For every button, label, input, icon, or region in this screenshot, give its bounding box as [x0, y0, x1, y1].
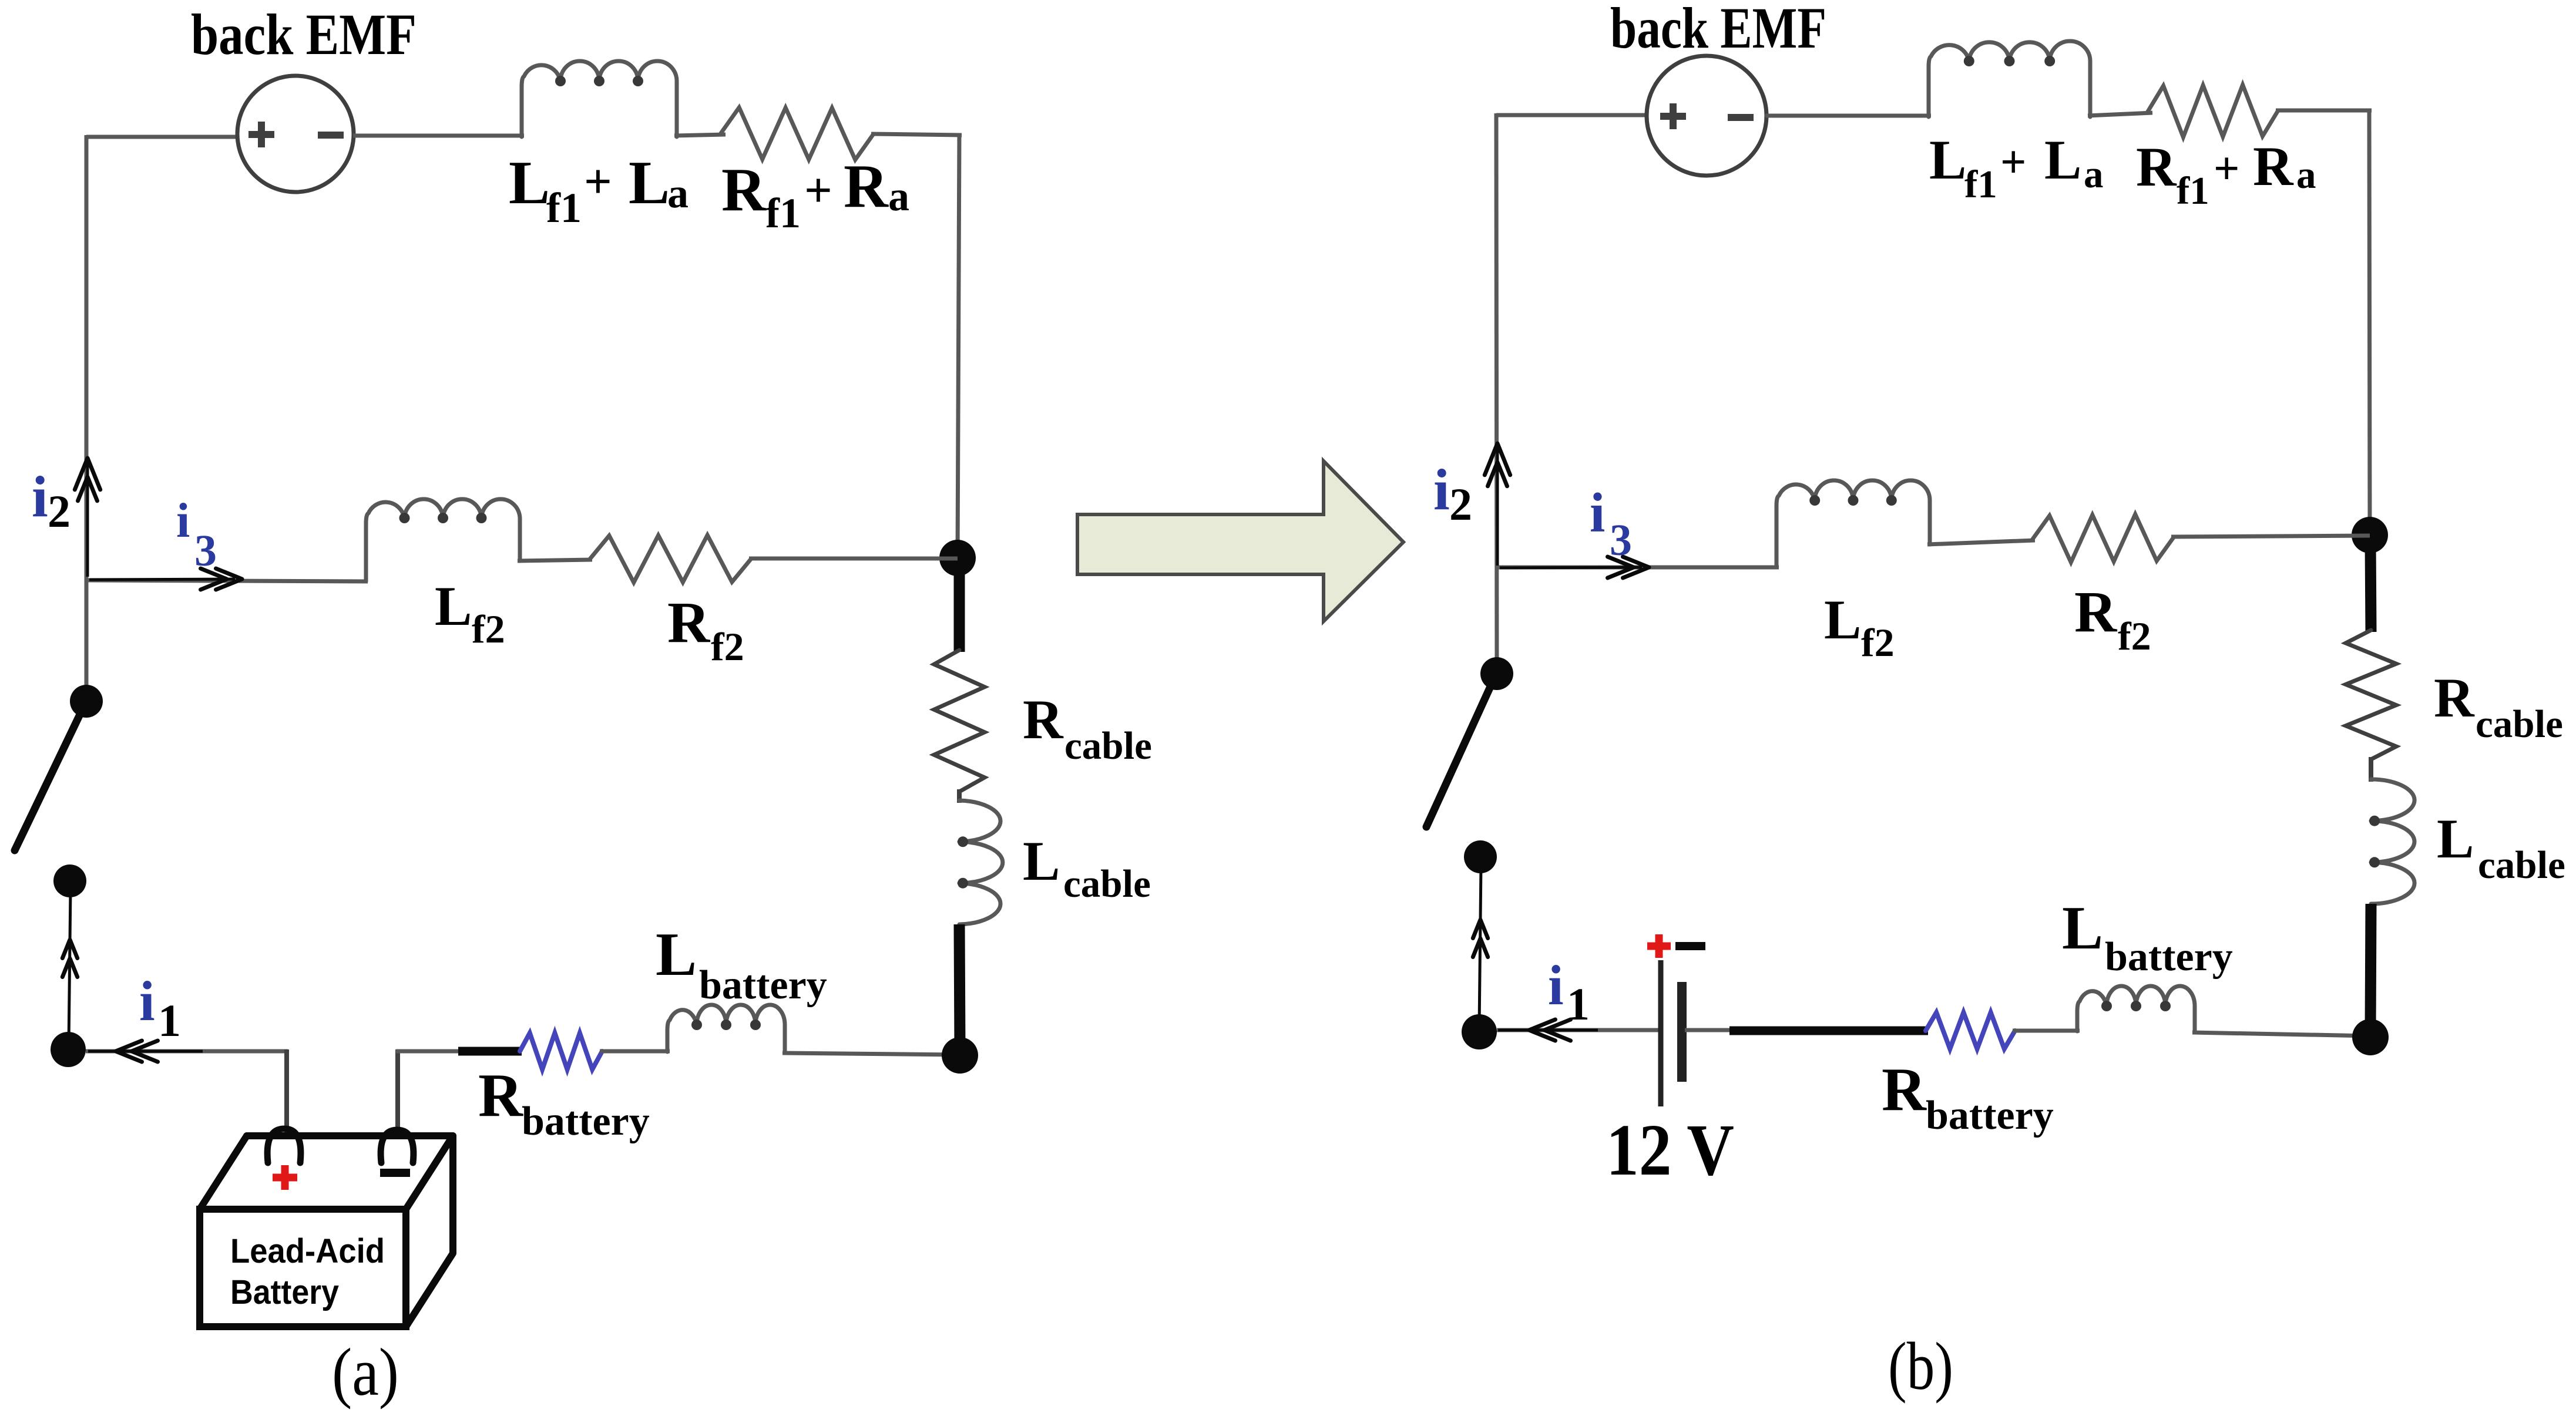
svg-text:12 V: 12 V [1606, 1110, 1734, 1191]
wire b: left vertical [1496, 113, 1497, 675]
svg-text:2: 2 [48, 486, 70, 537]
battery terminal clamp + (a) [267, 1129, 301, 1163]
label i3 (b) [1590, 482, 1632, 565]
svg-text:R: R [478, 1061, 523, 1129]
svg-text:a: a [888, 173, 909, 220]
inductor L_f2 (a) [366, 499, 520, 581]
inductor L_f1+L_a (a) [522, 61, 677, 137]
label R_cable (b) [2434, 667, 2563, 746]
label Lead-Acid Battery (a) [230, 1232, 385, 1311]
wire b: R_battery to L_battery [2013, 1029, 2080, 1033]
inductor L_battery (a) [667, 1005, 785, 1052]
label i1 (a) [139, 970, 181, 1046]
label R_f1+R_a (a) [721, 152, 909, 237]
battery box top face (a) [200, 1136, 453, 1209]
svg-text:L: L [2044, 129, 2081, 191]
label R_f1+R_a (b) [2136, 135, 2316, 213]
svg-text:i: i [176, 493, 190, 548]
label R_f2 (a) [667, 590, 744, 669]
wire b: L_f1 to R_f1 [2088, 113, 2152, 116]
svg-text:f2: f2 [711, 624, 744, 669]
label L_cable (b) [2437, 808, 2565, 887]
svg-text:cable: cable [1064, 724, 1152, 768]
svg-text:3: 3 [1610, 516, 1632, 565]
label back EMF (a) [191, 2, 417, 67]
wire a: negative lead to R_battery [396, 1049, 522, 1054]
svg-text:f2: f2 [472, 607, 505, 651]
svg-text:+: + [584, 154, 612, 209]
label i3 (a) [176, 493, 217, 576]
wire b: i3 branch left segment [1497, 566, 1779, 570]
label L_cable (a) [1023, 830, 1151, 906]
label L_f1+L_a (a) [509, 148, 688, 231]
wire a: L_f2 to R_f2 [518, 560, 592, 561]
switch S2 blade (b) [1426, 679, 1494, 827]
svg-text:R: R [2136, 136, 2177, 198]
svg-text:L: L [1824, 588, 1861, 651]
label L_battery (b) [2062, 893, 2233, 980]
wire a: L_battery to node A3 [782, 1053, 960, 1055]
svg-text:1: 1 [158, 995, 181, 1046]
current arrow i3 (a) [89, 568, 242, 590]
svg-text:L: L [629, 148, 670, 217]
inductor L_cable (a) [958, 800, 1003, 924]
wire a: battery negative lead [395, 1049, 400, 1141]
svg-text:3: 3 [194, 526, 217, 576]
svg-text:back EMF: back EMF [191, 2, 417, 67]
node A1: mid-right junction (a) [939, 540, 976, 576]
svg-text:battery: battery [2105, 934, 2233, 980]
voltage source back-EMF E1 (a) [237, 76, 354, 192]
svg-text:R: R [2253, 135, 2294, 197]
wire a: R_cable to L_cable joint [957, 789, 962, 803]
battery + mark (a) [273, 1165, 297, 1190]
svg-text:R: R [1023, 688, 1064, 751]
wire a: right vertical upper [958, 133, 959, 558]
resistor R_f2 (b) [2033, 514, 2174, 563]
caption (a) [332, 1335, 399, 1409]
wire b: top horizontal left of source [1496, 113, 1648, 117]
svg-text:L: L [2062, 893, 2103, 962]
svg-text:Battery: Battery [230, 1273, 339, 1311]
node B3: bottom-right junction (b) [2352, 1019, 2389, 1055]
svg-text:battery: battery [522, 1099, 650, 1144]
svg-text:f2: f2 [2118, 614, 2151, 658]
svg-text:back EMF: back EMF [1610, 0, 1826, 60]
resistor R_cable (a) [934, 650, 985, 792]
inductor L_f1+L_a (b) [1929, 41, 2090, 117]
label L_f2 (b) [1824, 588, 1895, 665]
wire a: i3 branch left segment [86, 580, 368, 581]
wire b: L_f2 to R_f2 [1927, 540, 2035, 544]
wire b: R_cable to L_cable joint [2369, 757, 2373, 782]
wire a: left vertical [85, 135, 89, 703]
switch S2 upper contact (b) [1480, 657, 1513, 690]
current arrow i1 (a) [86, 1041, 288, 1062]
svg-text:a: a [2084, 153, 2104, 196]
battery box front face (a) [200, 1209, 406, 1327]
node A3: bottom-right junction (a) [942, 1037, 978, 1074]
label i2 (a) [32, 464, 70, 537]
battery box side face (a) [406, 1136, 453, 1327]
switch S2 lower contact (b) [1464, 840, 1497, 873]
svg-text:i: i [1548, 954, 1564, 1017]
inductor L_f2 (b) [1776, 480, 1930, 567]
battery + mark (b) [1647, 934, 1671, 958]
current arrow i2 (b) [1485, 443, 1510, 566]
svg-text:2: 2 [1449, 479, 1472, 530]
svg-text:i: i [139, 970, 155, 1032]
svg-text:(a): (a) [332, 1335, 399, 1409]
node B2: bottom-left junction (b) [1462, 1014, 1497, 1049]
label i1 (b) [1548, 954, 1590, 1030]
svg-text:battery: battery [699, 963, 827, 1008]
resistor R_battery (b) [1926, 1012, 2015, 1049]
switch S1 blade (a) [15, 706, 84, 850]
resistor R_battery (a) [520, 1033, 602, 1069]
svg-text:cable: cable [1063, 862, 1151, 906]
svg-text:R: R [1882, 1055, 1927, 1123]
wire b: thick lead below L_cable [2370, 904, 2371, 1031]
svg-text:R: R [667, 590, 711, 655]
wire b: thick lead above R_cable [2370, 541, 2371, 632]
battery terminal clamp - (a) [381, 1130, 414, 1163]
svg-text:R: R [2434, 667, 2475, 729]
node A2: bottom-left junction (a) [51, 1032, 86, 1067]
svg-text:L: L [2437, 808, 2474, 870]
wire b: R_f2 to node B1 [2171, 536, 2370, 537]
battery - mark (b) [1675, 942, 1705, 950]
resistor R_f1+R_a (b) [2148, 85, 2278, 137]
svg-text:f2: f2 [1861, 620, 1895, 665]
wire b: battery to R_battery [1685, 1030, 1928, 1031]
svg-text:R: R [2074, 579, 2118, 644]
svg-text:R: R [721, 155, 767, 224]
svg-text:f1: f1 [1964, 163, 1997, 206]
label R_f2 (b) [2074, 579, 2151, 658]
svg-text:Lead-Acid: Lead-Acid [230, 1232, 385, 1270]
label R_battery (b) [1882, 1055, 2054, 1138]
wire b: R_f1 to top-right corner [2276, 109, 2372, 113]
label L_battery (a) [656, 920, 827, 1008]
wire a: source to L_f1 [353, 134, 524, 138]
wire b: source to L_f1 [1765, 114, 1931, 118]
switch S1 lower contact (a) [53, 864, 86, 897]
wire a: thick lead below L_cable [959, 924, 960, 1049]
inductor L_battery (b) [2077, 986, 2195, 1032]
svg-text:L: L [1023, 830, 1060, 892]
svg-text:i: i [1433, 457, 1450, 522]
switch S1 upper contact (a) [70, 685, 103, 718]
wire a: thick lead above R_cable [954, 564, 965, 652]
label 12 V (b) [1606, 1110, 1734, 1191]
svg-text:cable: cable [2476, 702, 2563, 746]
wire a: R_f2 to node A1 [749, 557, 958, 561]
battery 12V negative plate (b) [1677, 982, 1687, 1082]
svg-text:+: + [2214, 143, 2239, 194]
inductor L_cable (b) [2369, 779, 2414, 904]
battery - mark (a) [380, 1169, 410, 1177]
wire b: right vertical upper [2369, 109, 2370, 536]
current arrow i2 (a) [75, 458, 100, 577]
transform arrow [1077, 461, 1403, 621]
svg-text:L: L [656, 920, 697, 988]
svg-text:(b): (b) [1888, 1329, 1953, 1404]
wire b: L_battery to node B3 [2192, 1032, 2370, 1036]
svg-text:a: a [667, 170, 688, 217]
wire a: R_f1 to top-right corner [871, 134, 962, 135]
svg-text:i: i [1590, 482, 1605, 544]
wire a: R_battery to L_battery [600, 1049, 670, 1054]
resistor R_f1+R_a (a) [721, 107, 874, 160]
wire a: top horizontal left of source [86, 135, 238, 139]
resistor R_f2 (a) [590, 535, 751, 583]
svg-text:a: a [2296, 153, 2316, 197]
svg-text:f1: f1 [2177, 169, 2209, 213]
svg-text:f1: f1 [765, 190, 801, 237]
svg-text:battery: battery [1926, 1093, 2054, 1138]
svg-text:R: R [844, 152, 889, 220]
battery 12V positive plate (b) [1658, 960, 1664, 1106]
svg-text:i: i [32, 464, 48, 529]
svg-text:L: L [1929, 129, 1966, 191]
current arrow i3 (b) [1500, 557, 1649, 578]
current arrow i1 (b) [1497, 1020, 1663, 1041]
svg-text:f1: f1 [546, 184, 582, 231]
svg-text:L: L [435, 575, 472, 637]
label i2 (b) [1433, 457, 1472, 530]
wire a: lower-left vertical with arrows [62, 890, 77, 1045]
label R_cable (a) [1023, 688, 1152, 768]
svg-text:+: + [2000, 136, 2026, 187]
label back EMF (b) [1610, 0, 1826, 60]
voltage source back-EMF E1 (b) [1647, 56, 1766, 176]
wire a: L_f1 to R_f1 [674, 134, 726, 136]
label R_battery (a) [478, 1061, 650, 1144]
resistor R_cable (b) [2346, 630, 2396, 759]
label L_f1+L_a (b) [1929, 129, 2104, 206]
svg-text:cable: cable [2478, 843, 2565, 887]
node B1: mid-right junction (b) [2352, 517, 2388, 553]
wire b: lower-left vertical with arrows [1473, 866, 1487, 1028]
wire a: battery positive lead [284, 1049, 289, 1141]
svg-text:L: L [509, 148, 550, 217]
svg-text:+: + [804, 163, 832, 218]
label L_f2 (a) [435, 575, 505, 651]
caption (b) [1888, 1329, 1953, 1404]
